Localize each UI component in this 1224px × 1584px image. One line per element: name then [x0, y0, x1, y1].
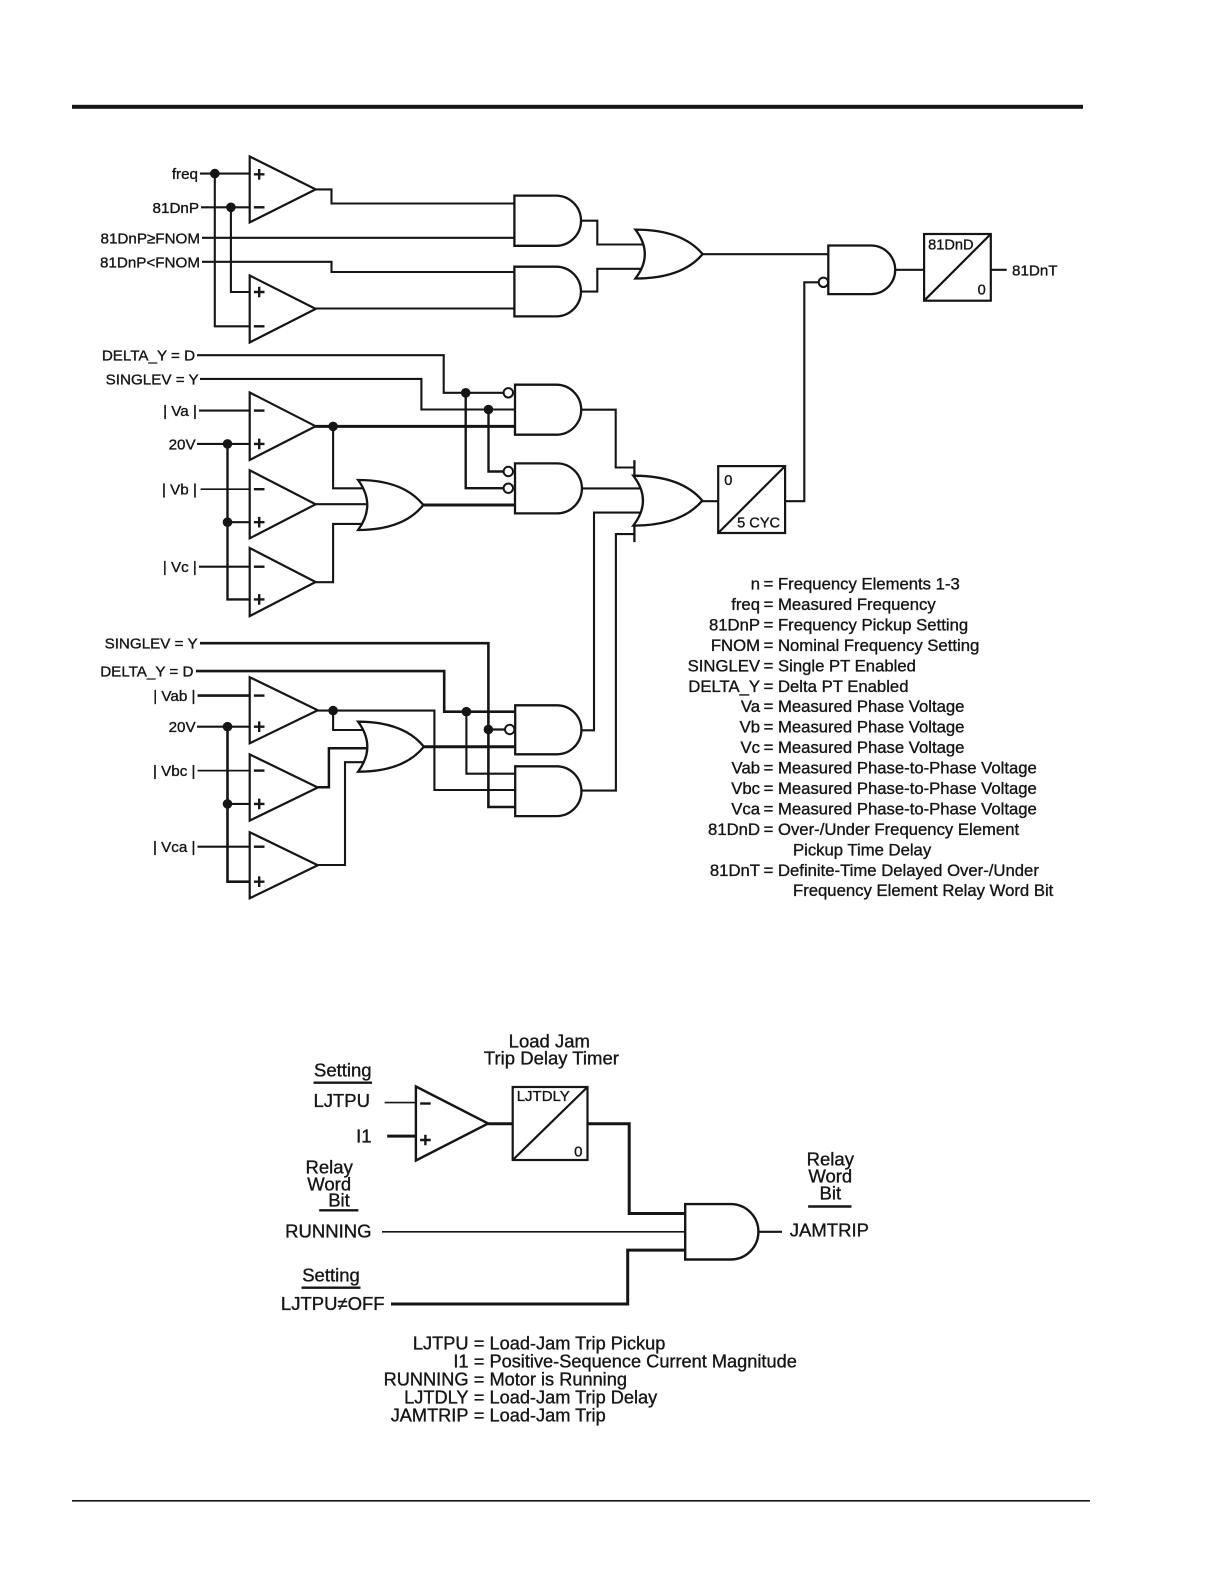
- wire U5 output up to OR O2: [316, 524, 370, 582]
- svg-text:freq: freq: [731, 595, 760, 614]
- node DELTA_Y junction (low): [462, 707, 472, 717]
- wire U6 output rail to AND A7: [318, 711, 515, 790]
- wire DELTA_Y down to AND A5 bubble: [466, 393, 504, 488]
- svg-text:Vca: Vca: [731, 800, 760, 819]
- svg-text:81DnT: 81DnT: [710, 861, 760, 880]
- svg-text:= Load-Jam Trip Pickup: = Load-Jam Trip Pickup: [474, 1333, 666, 1353]
- bubble on AND A4 input 1: [504, 388, 513, 397]
- tick top of OR O3: [633, 460, 635, 477]
- svg-text:Setting: Setting: [302, 1265, 360, 1286]
- node 20V junction (low): [223, 722, 233, 732]
- wire LJTDLY output down to AND A8: [588, 1124, 686, 1214]
- comparator U5 (Vc): [250, 548, 316, 616]
- svg-text:RUNNING: RUNNING: [384, 1369, 469, 1389]
- svg-text:5 CYC: 5 CYC: [737, 516, 780, 532]
- svg-text:I1: I1: [453, 1351, 468, 1371]
- svg-text:= Over-/Under Frequency Elemen: = Over-/Under Frequency Element: [764, 820, 1020, 839]
- svg-text:Va: Va: [741, 697, 761, 716]
- underline Setting (LJTPU off): [302, 1286, 361, 1288]
- svg-text:= Motor is Running: = Motor is Running: [474, 1369, 627, 1389]
- AND gate A8: [685, 1204, 758, 1259]
- svg-text:81DnP: 81DnP: [709, 615, 760, 634]
- AND gate A5: [515, 463, 582, 513]
- wire 20V rail to comparator U7 +: [228, 803, 250, 805]
- bubble on AND A6 input 2: [505, 725, 514, 734]
- wire 20V rail down (mid): [228, 444, 250, 600]
- wire U4 output to OR O2: [316, 503, 372, 505]
- wire A5 output to OR O3: [582, 487, 646, 489]
- timer box 81DnD: [924, 234, 991, 301]
- wire |Vb| to comparator U4 -: [201, 488, 250, 490]
- wire |Vca| to comparator U8 -: [198, 846, 250, 848]
- svg-text:= Load-Jam Trip Delay: = Load-Jam Trip Delay: [474, 1387, 658, 1407]
- svg-text:JAMTRIP: JAMTRIP: [790, 1220, 869, 1241]
- underline Bit (left): [319, 1209, 358, 1211]
- svg-text:= Delta PT Enabled: = Delta PT Enabled: [764, 677, 909, 696]
- wire 81DnP to comparator U1 -: [201, 206, 250, 208]
- timer box 5CYC: [718, 466, 785, 533]
- underline Setting (LJTPU): [314, 1081, 373, 1083]
- wire freq down to comparator U2 -: [215, 174, 250, 327]
- svg-text:= Measured Phase-to-Phase Volt: = Measured Phase-to-Phase Voltage: [764, 800, 1037, 819]
- OR gate O1: [635, 230, 702, 279]
- svg-text:= Measured Phase Voltage: = Measured Phase Voltage: [764, 718, 965, 737]
- top horizontal rule: [72, 105, 1083, 109]
- legend for frequency element diagram: [688, 575, 1054, 901]
- wire 20V rail down (low): [228, 727, 250, 882]
- wire A8 output JAMTRIP: [758, 1231, 782, 1233]
- node 81DnP junction: [226, 203, 236, 213]
- wire LJTPU to comparator U9 -: [385, 1102, 416, 1104]
- wire riser from AND A7 to OR O3: [581, 534, 634, 791]
- OR gate O4: [358, 722, 424, 772]
- bubble on NAND A3 lower input: [819, 278, 828, 287]
- wire DELTA_Y rail (low): [196, 671, 515, 712]
- svg-text:= Frequency Elements 1-3: = Frequency Elements 1-3: [764, 575, 960, 594]
- wire A4 output to OR O3: [581, 410, 635, 468]
- wire 81DnP>=FNOM to AND A1: [202, 237, 514, 239]
- wire A3 output to timer 81DnD: [895, 269, 924, 271]
- wire 81DnP down to comparator U2 +: [231, 207, 250, 292]
- wire |Va| to comparator U3 -: [199, 410, 250, 412]
- wire riser from AND A6 to OR O3: [581, 513, 646, 731]
- bottom horizontal rule: [72, 1500, 1090, 1502]
- node 20V rail to U4 (mid): [223, 517, 233, 527]
- node U6 output junction: [328, 706, 338, 716]
- node U3 output junction: [328, 422, 338, 432]
- wire 20V to comparator U3 +: [197, 443, 250, 445]
- svg-text:DELTA_Y = D: DELTA_Y = D: [100, 664, 193, 681]
- comparator U8 (Vca): [250, 832, 318, 898]
- comparator U9: [416, 1087, 488, 1161]
- svg-text:20V: 20V: [169, 436, 197, 453]
- svg-text:Bit: Bit: [328, 1190, 350, 1211]
- svg-text:Vb: Vb: [740, 718, 760, 737]
- svg-text:| Vab |: | Vab |: [153, 688, 195, 705]
- svg-text:= Positive-Sequence Current Ma: = Positive-Sequence Current Magnitude: [474, 1351, 797, 1371]
- wire SINGLEV rail (low): [200, 643, 515, 807]
- svg-text:SINGLEV: SINGLEV: [688, 656, 761, 675]
- svg-text:LJTDLY: LJTDLY: [517, 1088, 570, 1105]
- tick bottom of OR O3: [633, 525, 635, 543]
- wire U2 output to AND A2: [316, 307, 515, 309]
- svg-text:freq: freq: [172, 166, 198, 183]
- svg-text:= Nominal Frequency Setting: = Nominal Frequency Setting: [764, 636, 980, 655]
- svg-text:81DnT: 81DnT: [1012, 263, 1058, 280]
- wire freq to comparator U1 +: [200, 173, 250, 175]
- svg-text:81DnD: 81DnD: [708, 820, 760, 839]
- wire U1 output to AND A1: [316, 189, 515, 203]
- svg-text:LJTPU: LJTPU: [313, 1090, 370, 1111]
- AND gate A7: [515, 766, 581, 816]
- svg-text:JAMTRIP: JAMTRIP: [391, 1405, 469, 1425]
- AND gate A1: [514, 196, 581, 246]
- wire A2 output to OR O1: [581, 269, 646, 292]
- wire |Vc| to comparator U5 -: [199, 566, 250, 568]
- svg-text:81DnP: 81DnP: [153, 200, 199, 217]
- svg-text:= Single PT Enabled: = Single PT Enabled: [764, 656, 916, 675]
- svg-text:SINGLEV = Y: SINGLEV = Y: [105, 636, 198, 653]
- wire U3 output down to OR O2: [333, 426, 370, 488]
- svg-text:= Definite-Time Delayed Over-/: = Definite-Time Delayed Over-/Under: [764, 861, 1040, 880]
- wire O2 output to AND A5: [423, 504, 515, 507]
- wire A1 output to OR O1: [581, 221, 646, 245]
- comparator U1: [250, 157, 316, 223]
- svg-text:= Measured Frequency: = Measured Frequency: [764, 595, 937, 614]
- svg-text:= Frequency Pickup Setting: = Frequency Pickup Setting: [764, 615, 969, 634]
- svg-text:LJTPU≠OFF: LJTPU≠OFF: [281, 1293, 385, 1314]
- svg-text:= Measured Phase-to-Phase Volt: = Measured Phase-to-Phase Voltage: [764, 759, 1037, 778]
- svg-text:81DnP≥FNOM: 81DnP≥FNOM: [101, 230, 200, 247]
- comparator U6 (Vab): [250, 677, 318, 743]
- node freq junction: [210, 169, 220, 179]
- svg-text:| Vbc |: | Vbc |: [153, 763, 196, 780]
- AND gate A3: [828, 246, 895, 295]
- wire 81DnT output: [991, 269, 1007, 271]
- svg-text:| Va |: | Va |: [163, 403, 197, 420]
- wire DELTA_Y to AND A4 bubble: [197, 355, 504, 393]
- svg-text:LJTDLY: LJTDLY: [404, 1387, 468, 1407]
- wire 20V rail to comparator U4 +: [228, 521, 250, 523]
- svg-text:Pickup Time Delay: Pickup Time Delay: [793, 840, 932, 859]
- wire SINGLEV down to AND A5 bubble: [489, 410, 504, 472]
- svg-text:= Load-Jam Trip: = Load-Jam Trip: [474, 1405, 606, 1425]
- svg-text:Bit: Bit: [820, 1182, 842, 1203]
- bubble on AND A5 input 2: [504, 484, 513, 493]
- wire 20V to comparator U6 +: [197, 726, 250, 728]
- wire LJTPU!=OFF to AND A8: [391, 1250, 685, 1304]
- svg-text:81DnP<FNOM: 81DnP<FNOM: [100, 254, 200, 271]
- svg-text:n: n: [751, 575, 760, 594]
- wire U3 output to AND A4: [316, 425, 515, 428]
- svg-text:= Measured Phase Voltage: = Measured Phase Voltage: [764, 697, 965, 716]
- svg-text:= Measured Phase-to-Phase Volt: = Measured Phase-to-Phase Voltage: [764, 779, 1037, 798]
- underline Bit (right): [808, 1205, 851, 1207]
- node SINGLEV junction (low): [484, 725, 494, 735]
- svg-text:I1: I1: [356, 1125, 371, 1146]
- svg-text:FNOM: FNOM: [711, 636, 760, 655]
- wire U6 output down to OR O4: [333, 711, 370, 730]
- AND gate A4: [515, 385, 581, 435]
- wire 5CYC timer output up to NAND A3 bubble: [785, 282, 819, 501]
- svg-text:= Measured Phase Voltage: = Measured Phase Voltage: [764, 738, 965, 757]
- svg-text:Vbc: Vbc: [731, 779, 760, 798]
- wire U8 output up to OR O4: [318, 762, 370, 865]
- svg-text:Vc: Vc: [741, 738, 760, 757]
- timer box LJTDLY: [513, 1087, 588, 1160]
- svg-text:Trip Delay Timer: Trip Delay Timer: [484, 1048, 619, 1069]
- wire DELTA_Y down to AND A7: [466, 712, 515, 774]
- wire SINGLEV to AND A4: [200, 379, 515, 410]
- svg-text:Setting: Setting: [314, 1060, 372, 1081]
- svg-text:| Vca |: | Vca |: [153, 839, 196, 856]
- svg-text:0: 0: [574, 1143, 582, 1160]
- svg-text:DELTA_Y = D: DELTA_Y = D: [102, 348, 195, 365]
- wire 81DnP<FNOM to AND A2: [202, 262, 514, 272]
- wire U7 output up to OR O4: [318, 748, 372, 787]
- comparator U3 (Va): [250, 393, 316, 461]
- svg-text:Frequency Element Relay Word B: Frequency Element Relay Word Bit: [793, 881, 1054, 900]
- AND gate A2: [514, 267, 581, 317]
- node SINGLEV junction (mid): [484, 405, 494, 415]
- svg-text:81DnD: 81DnD: [928, 238, 973, 254]
- wire RUNNING to AND A8: [382, 1231, 685, 1233]
- wire SINGLEV to AND A6 bubble: [488, 728, 505, 730]
- svg-text:0: 0: [724, 473, 732, 489]
- svg-text:| Vb |: | Vb |: [162, 482, 197, 499]
- svg-text:DELTA_Y: DELTA_Y: [688, 677, 760, 696]
- svg-text:0: 0: [978, 283, 986, 299]
- comparator U7 (Vbc): [250, 754, 318, 820]
- wire O3 output to timer 5CYC: [702, 500, 718, 502]
- svg-text:RUNNING: RUNNING: [285, 1220, 371, 1241]
- wire I1 to comparator U9 +: [387, 1135, 416, 1138]
- wire U9 output to timer LJTDLY: [488, 1122, 513, 1125]
- node 20V junction (mid): [223, 439, 233, 449]
- wire |Vbc| to comparator U7 -: [198, 770, 250, 772]
- comparator U4 (Vb): [250, 470, 316, 538]
- svg-text:Vab: Vab: [732, 759, 760, 778]
- bubble on AND A5 input 1: [504, 467, 513, 476]
- svg-text:| Vc |: | Vc |: [163, 559, 197, 576]
- node DELTA_Y junction (mid): [461, 388, 471, 398]
- AND gate A6: [515, 705, 581, 754]
- legend for load jam diagram: [384, 1333, 797, 1425]
- svg-text:20V: 20V: [169, 719, 197, 736]
- wire |Vab| to comparator U6 -: [198, 694, 250, 697]
- OR gate O2: [358, 480, 423, 530]
- svg-text:SINGLEV = Y: SINGLEV = Y: [106, 371, 199, 388]
- svg-text:LJTPU: LJTPU: [413, 1333, 469, 1353]
- OR gate O3: [633, 476, 702, 526]
- wire O4 output to AND A6: [424, 745, 515, 748]
- comparator U2: [250, 276, 316, 343]
- node 20V rail to U7 (low): [223, 799, 233, 809]
- wire O1 output to NAND A3: [703, 253, 829, 255]
